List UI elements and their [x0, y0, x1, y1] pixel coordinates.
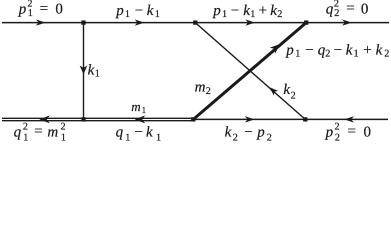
arrow on thin diagonal k2 (up-left) — [267, 85, 278, 96]
arrow on p2 segment (left) — [344, 116, 354, 122]
svg-text:1: 1 — [156, 133, 161, 144]
wire: thin diagonal k2 line — [195, 23, 305, 120]
node B: top-middle vertex — [193, 20, 197, 24]
node A: top-left vertex — [81, 20, 85, 24]
svg-text:1: 1 — [23, 133, 28, 144]
svg-text:2: 2 — [291, 90, 296, 101]
node E: bottom-middle vertex — [191, 117, 195, 121]
label m1 (above double line) — [131, 99, 146, 115]
arrow on thick diagonal (up-right) — [270, 41, 283, 54]
svg-text:m: m — [195, 80, 206, 96]
wire: top fermion line p1 -> q2 — [2, 22, 389, 24]
node F: bottom-right vertex — [303, 117, 307, 121]
label k1 (vertical line) — [88, 63, 100, 80]
node C: top-right vertex — [304, 20, 308, 24]
svg-text:q: q — [116, 124, 124, 140]
svg-text:0: 0 — [364, 124, 372, 140]
svg-text:−: − — [334, 42, 342, 58]
svg-text:=: = — [40, 1, 48, 17]
svg-text:k: k — [88, 63, 95, 79]
svg-text:−: − — [231, 3, 239, 19]
svg-text:p: p — [18, 2, 27, 18]
svg-text:2: 2 — [267, 133, 272, 144]
svg-text:=: = — [348, 124, 356, 140]
svg-text:1: 1 — [222, 9, 227, 20]
arrow on k1 vertical line (down) — [80, 65, 88, 74]
node D: bottom-left vertex — [81, 117, 85, 121]
wire: bottom single line right part — [193, 118, 388, 120]
label q2^2 = 0 — [326, 0, 369, 19]
svg-text:1: 1 — [354, 49, 359, 60]
label k2 (thin diagonal) — [283, 82, 295, 101]
label p1 - q2 - k1 + k2 (thick propagator) — [285, 42, 389, 59]
svg-text:p: p — [285, 42, 294, 58]
arrow on q2 segment — [342, 19, 352, 25]
svg-text:1: 1 — [142, 105, 147, 115]
wire: thick diagonal m2 propagator — [193, 23, 306, 120]
svg-text:2: 2 — [384, 49, 389, 60]
svg-text:q: q — [326, 1, 334, 17]
wire: vertical momentum k1 line — [83, 23, 85, 120]
arrow on q1 double line (left) — [39, 115, 50, 123]
svg-text:1: 1 — [28, 8, 33, 19]
svg-text:2: 2 — [335, 133, 340, 144]
arrow on p1-k1+k2 segment — [245, 19, 255, 25]
label p1 - k1 — [115, 3, 160, 20]
svg-text:1: 1 — [95, 69, 100, 80]
svg-text:k: k — [270, 3, 277, 19]
wire: bottom double line (massive q1) — [2, 117, 193, 119]
label k2 - p2 — [225, 124, 272, 143]
svg-text:2: 2 — [23, 122, 28, 133]
svg-text:k: k — [225, 124, 232, 140]
svg-text:+: + — [259, 3, 267, 19]
svg-text:1: 1 — [250, 9, 255, 20]
svg-text:k: k — [376, 42, 383, 58]
label p2^2 = 0 — [325, 122, 371, 144]
label p1 - k1 + k2 — [212, 3, 282, 20]
svg-text:2: 2 — [334, 8, 339, 19]
svg-text:1: 1 — [125, 133, 130, 144]
arrow on p1 segment — [36, 19, 46, 25]
svg-text:0: 0 — [361, 1, 369, 17]
svg-text:2: 2 — [61, 122, 66, 133]
svg-text:p: p — [325, 124, 334, 140]
label q1^2 = m1^2 — [14, 122, 66, 144]
svg-text:−: − — [135, 3, 143, 19]
svg-text:1: 1 — [155, 9, 160, 20]
arrow m1 on q1-k1 double segment (left) — [135, 115, 146, 123]
label p1^2 = 0 — [18, 0, 63, 19]
svg-text:p: p — [256, 124, 265, 140]
svg-text:p: p — [115, 3, 124, 19]
svg-text:2: 2 — [233, 133, 238, 144]
svg-text:−: − — [244, 124, 252, 140]
label m2 (thick diagonal) — [195, 80, 211, 98]
svg-text:k: k — [147, 3, 154, 19]
svg-text:k: k — [346, 42, 353, 58]
svg-text:p: p — [212, 3, 221, 19]
svg-text:m: m — [131, 99, 140, 114]
svg-text:0: 0 — [55, 2, 63, 18]
svg-text:k: k — [243, 3, 250, 19]
svg-text:−: − — [134, 124, 142, 140]
svg-text:1: 1 — [61, 133, 66, 144]
svg-text:2: 2 — [325, 49, 330, 60]
svg-text:1: 1 — [295, 49, 300, 60]
svg-text:2: 2 — [335, 122, 340, 133]
svg-text:=: = — [34, 124, 42, 140]
svg-text:k: k — [283, 82, 290, 98]
arrow on p1-k1 segment — [135, 19, 145, 25]
svg-text:−: − — [305, 42, 313, 58]
svg-text:1: 1 — [125, 9, 130, 20]
label q1 - k1 — [116, 124, 161, 143]
svg-text:k: k — [146, 124, 153, 140]
arrow on k2-p2 segment (right) — [245, 116, 255, 122]
svg-text:2: 2 — [277, 9, 282, 20]
svg-text:m: m — [47, 124, 58, 140]
svg-text:=: = — [346, 1, 354, 17]
svg-text:q: q — [14, 124, 22, 140]
svg-text:+: + — [363, 42, 371, 58]
svg-text:2: 2 — [206, 86, 211, 97]
